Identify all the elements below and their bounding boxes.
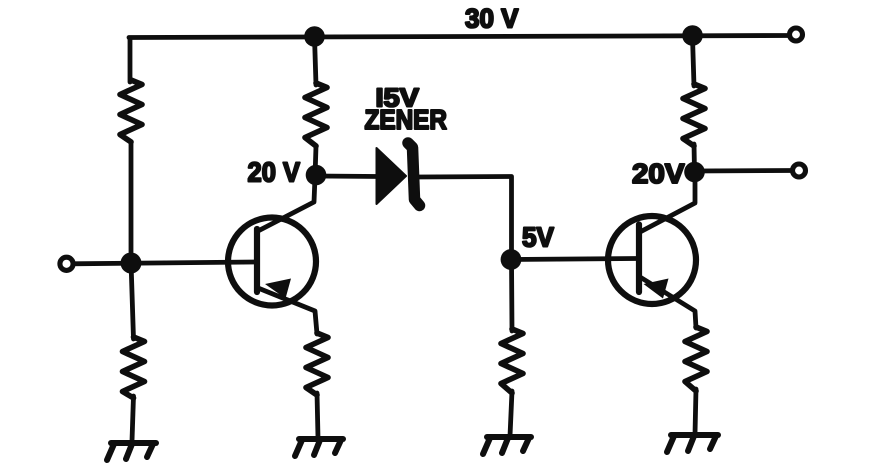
svg-text:30 V: 30 V xyxy=(465,4,519,34)
svg-text:ZENER: ZENER xyxy=(365,104,448,135)
svg-text:20 V: 20 V xyxy=(248,157,301,188)
svg-text:5V: 5V xyxy=(522,222,555,253)
svg-text:20V: 20V xyxy=(632,158,685,189)
